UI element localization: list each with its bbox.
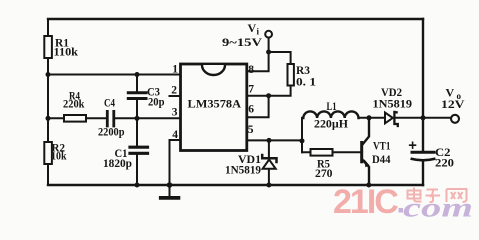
capacitor C3 (136, 75, 138, 119)
svg-text:LM3578A: LM3578A (188, 97, 242, 111)
svg-text:C4: C4 (104, 98, 115, 110)
wire R3 bottom to pin7 (247, 86, 291, 96)
svg-text:2200p: 2200p (98, 127, 125, 139)
svg-text:R3: R3 (296, 65, 310, 77)
svg-text:1820p: 1820p (103, 158, 132, 170)
svg-text:12V: 12V (441, 99, 465, 111)
diode VD1 (268, 140, 270, 185)
svg-text:220: 220 (435, 158, 454, 170)
svg-text:220µH: 220µH (314, 119, 348, 131)
wire right rail (422, 19, 424, 185)
node A junction dots (46, 50, 426, 188)
op-amp U1 LM3578A body (181, 64, 247, 151)
watermark CJK 电子网 (408, 188, 467, 203)
wire Vi node to R3 top (269, 52, 291, 64)
resistor R5 (302, 151, 361, 153)
capacitor C2 (412, 151, 434, 154)
wire pin2 stub (170, 95, 181, 97)
svg-text:7: 7 (248, 84, 254, 96)
wire left rail (47, 19, 49, 185)
wire top rail (48, 18, 423, 20)
transistor VT1 (360, 141, 363, 163)
watermark dot (399, 208, 404, 213)
svg-text:VD2: VD2 (381, 87, 402, 99)
capacitor C1 (136, 118, 138, 185)
node left of L1 (301, 118, 303, 153)
svg-text:8: 8 (248, 64, 254, 76)
svg-text:V: V (248, 21, 257, 35)
svg-text:110k: 110k (54, 47, 79, 59)
svg-text:20p: 20p (148, 97, 165, 109)
svg-text:220k: 220k (63, 99, 85, 111)
diode VD2 (385, 113, 393, 124)
watermark 21IC (333, 183, 473, 223)
svg-text:L1: L1 (327, 101, 337, 113)
svg-text:6: 6 (248, 103, 254, 115)
capacitor C4 (107, 111, 114, 126)
ground (169, 185, 171, 196)
svg-text:270: 270 (315, 168, 333, 180)
svg-text:9~15V: 9~15V (222, 35, 262, 49)
resistor R4 (64, 115, 86, 122)
terminal Vi (265, 31, 272, 38)
svg-text:21IC: 21IC (333, 183, 398, 221)
inductor L1 (303, 111, 358, 118)
wire pin1 net (48, 74, 181, 76)
svg-text:1: 1 (172, 63, 178, 75)
resistor R2 (44, 142, 52, 164)
wire output node to Vo (423, 117, 451, 119)
wire pin5 net (247, 139, 302, 141)
wire pin6 net (247, 96, 269, 118)
svg-text:D44: D44 (372, 154, 391, 166)
wire pin3 net (48, 117, 181, 119)
wire bottom rail (48, 184, 423, 186)
svg-text:4: 4 (172, 129, 178, 141)
svg-text:VT1: VT1 (373, 141, 391, 153)
svg-text:10k: 10k (51, 151, 67, 163)
svg-text:5: 5 (248, 124, 254, 136)
svg-text:3: 3 (172, 106, 178, 118)
svg-text:0. 1: 0. 1 (296, 76, 316, 88)
terminal Vo (451, 115, 459, 123)
wire Vi to pin8 (247, 38, 269, 72)
svg-text:1N5819: 1N5819 (225, 165, 261, 177)
svg-text:V: V (446, 86, 455, 100)
resistor R3 (288, 64, 294, 86)
resistor R1 (44, 36, 52, 58)
wire L1 right to VD2 (359, 117, 386, 119)
svg-text:2: 2 (171, 85, 177, 97)
wire pin4 net to ground (170, 140, 181, 185)
svg-text:1N5819: 1N5819 (373, 99, 413, 111)
